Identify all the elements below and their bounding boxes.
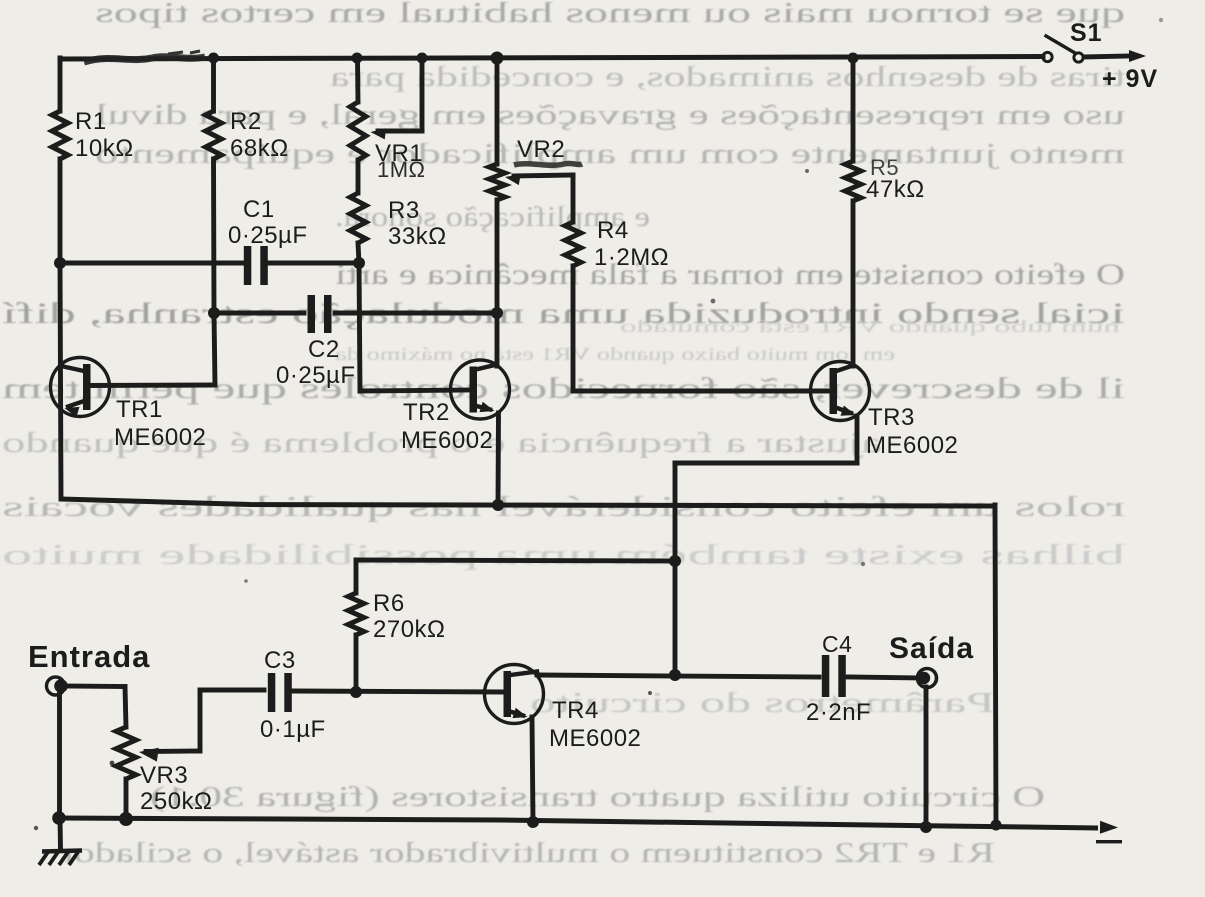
wire right vertical from mid rail (995, 505, 996, 826)
node ground junction (52, 811, 66, 825)
svg-text:ME6002: ME6002 (114, 424, 206, 451)
svg-text:R3: R3 (388, 197, 420, 224)
bottom rail arrow (1100, 821, 1118, 834)
potentiometer VR3 (116, 727, 136, 779)
svg-text:1·2MΩ: 1·2MΩ (594, 244, 669, 271)
wire C1 left (60, 261, 243, 266)
node TR2 collector rail (491, 52, 504, 65)
svg-text:68kΩ: 68kΩ (230, 135, 289, 162)
svg-text:2·2nF: 2·2nF (806, 699, 871, 726)
wire VR1 top lead (355, 58, 360, 102)
svg-text:47kΩ: 47kΩ (866, 176, 925, 203)
wire C4 right to Saida (848, 677, 920, 678)
wire VR2 bottom to TR2 collector (495, 200, 500, 366)
switch S1 (1043, 52, 1052, 61)
svg-text:bilhas existe também uma possi: bilhas existe também uma possibilidade m… (2, 540, 1125, 571)
svg-text:33kΩ: 33kΩ (388, 223, 447, 250)
node R3/C1 junction (353, 257, 365, 269)
svg-text:R1: R1 (75, 108, 107, 135)
wire C2 right (335, 311, 497, 316)
VR2 wiper arrow (505, 174, 521, 185)
wire R5 bottom to TR3 collector (851, 201, 856, 366)
transistor TR4 ME6002 (485, 665, 544, 724)
transistor TR3 ME6002 (811, 362, 870, 421)
wire VR3 bottom lead (124, 779, 129, 819)
node C2 left junction (208, 307, 220, 319)
node TR2 emitter on mid rail (492, 499, 504, 511)
wire top supply rail (60, 57, 1043, 60)
wire TR2 collector from rail (495, 58, 500, 164)
resistor R5 (845, 161, 861, 201)
svg-text:ME6002: ME6002 (549, 725, 641, 752)
terminal Saida (918, 669, 937, 688)
wire VR1-R3 link (356, 160, 361, 193)
wire TR3 base run (573, 389, 833, 394)
svg-text:TR3: TR3 (868, 404, 915, 431)
node R6 top junction (669, 555, 681, 567)
svg-text:270kΩ: 270kΩ (373, 616, 445, 643)
svg-text:0·1µF: 0·1µF (260, 716, 326, 743)
wire TR2 base (360, 390, 472, 391)
capacitor C4 (822, 655, 830, 697)
wire mid emitter rail (61, 499, 995, 506)
smudge correction mark on top rail (84, 57, 205, 62)
svg-text:250kΩ: 250kΩ (140, 788, 212, 815)
node R2 top (208, 53, 219, 64)
wire bottom rail (58, 818, 1098, 828)
capacitor C2 (308, 295, 316, 333)
ground symbol (58, 818, 63, 849)
wire C1 right (269, 261, 358, 266)
wire TR2 emitter (496, 413, 501, 505)
svg-text:0·25µF: 0·25µF (276, 362, 356, 389)
wire down to TR2 base (359, 263, 360, 391)
wire R5 top lead (851, 58, 856, 161)
wire TR4 emitter (532, 717, 533, 822)
wire R3 bottom to C1 node (358, 243, 359, 263)
resistor R3 (350, 193, 366, 243)
svg-text:tiras de desenhos animados, e: tiras de desenhos animados, e concedida … (330, 61, 1125, 93)
node C3/R6/TR4-base junction (350, 686, 362, 698)
wire TR1 base (89, 383, 215, 388)
wire C2 left (214, 311, 304, 316)
svg-text:10kΩ: 10kΩ (75, 135, 134, 162)
node TR4 collector junction (669, 669, 681, 681)
svg-text:R6: R6 (373, 590, 405, 617)
transistor TR2 ME6002 (451, 360, 510, 419)
node VR1 wiper on rail (417, 53, 428, 64)
wire R6 top lead (354, 560, 359, 593)
svg-text:TR2: TR2 (403, 399, 450, 426)
wire R6 bottom lead (354, 635, 359, 692)
svg-text:TR4: TR4 (552, 697, 599, 724)
node VR3 bottom (119, 812, 133, 826)
svg-text:em tom muito baixo quando VR1: em tom muito baixo quando VR1 está no má… (335, 344, 895, 364)
wire R2 top lead (211, 58, 216, 111)
wire S1 to supply arrow (1084, 56, 1128, 57)
wire C3 right to TR4 base (293, 691, 503, 692)
minus sign below arrow (1096, 840, 1122, 843)
node R5 top (848, 53, 859, 64)
wire TR4 collector run (537, 675, 819, 677)
potentiometer VR1 (350, 102, 366, 160)
resistor R1 (52, 111, 68, 159)
dust specks (711, 299, 716, 304)
wire R6 top run (356, 560, 675, 561)
node Saida bottom (920, 821, 932, 833)
wire Entrada to VR3 (61, 684, 125, 689)
svg-text:O circuito utiliza quatro tran: O circuito utiliza quatro transistores (… (150, 781, 1045, 813)
svg-text:R4: R4 (597, 217, 629, 244)
svg-text:num tubo quando VR1 está comut: num tubo quando VR1 está comutado (620, 317, 1120, 336)
svg-text:O efeito consiste em tornar a: O efeito consiste em tornar a fala mecân… (335, 258, 1125, 291)
svg-text:VR2: VR2 (517, 136, 565, 163)
node C2/TR2-collector junction (491, 307, 503, 319)
VR1 wiper arrow (371, 128, 387, 139)
wire R4 bottom (571, 266, 576, 391)
terminal Entrada (47, 677, 65, 695)
svg-text:C4: C4 (822, 631, 852, 657)
transistor TR1 ME6002 (51, 358, 110, 417)
svg-text:S1: S1 (1070, 19, 1103, 47)
node C1-left junction (54, 257, 66, 269)
wire TR1 collector/emitter vertical (60, 263, 61, 499)
wire TR3 emitter step (855, 416, 860, 463)
svg-text:que se tornou mais ou menos ha: que se tornou mais ou menos habitual em … (95, 0, 1125, 29)
wire down to TR1 base corner (214, 313, 215, 385)
capacitor C3 (268, 673, 276, 712)
svg-text:Saída: Saída (889, 632, 974, 665)
svg-text:Entrada: Entrada (28, 639, 150, 674)
svg-text:1MΩ: 1MΩ (377, 157, 426, 182)
wire left vertical (R1 branch) (58, 58, 63, 111)
node TR4 emitter bottom (527, 816, 539, 828)
svg-text:0·25µF: 0·25µF (228, 222, 308, 249)
svg-text:ME6002: ME6002 (401, 427, 493, 454)
svg-text:R2: R2 (230, 108, 262, 135)
VR2 struck-out value (514, 163, 582, 165)
wire Entrada down (57, 694, 62, 818)
VR3 wiper arrow (139, 748, 159, 762)
svg-text:VR3: VR3 (140, 762, 188, 789)
wire VR2 wiper down to R4 (571, 175, 576, 222)
node right corner bottom (991, 820, 1002, 831)
svg-text:ME6002: ME6002 (866, 432, 958, 459)
resistor R6 (348, 593, 364, 635)
node VR1 top (352, 53, 363, 64)
svg-text:C1: C1 (243, 196, 275, 223)
capacitor C1 (244, 246, 252, 285)
resistor R2 (206, 111, 222, 159)
svg-text:R1 e TR2 constituem o multivib: R1 e TR2 constituem o multivibrador astá… (60, 837, 995, 869)
svg-text:il de descrever, são fornecido: il de descrever, são fornecidos controle… (2, 372, 1125, 405)
svg-text:C2: C2 (308, 336, 340, 363)
wire Saida down (924, 687, 929, 827)
svg-text:C3: C3 (264, 647, 296, 674)
resistor R4 (565, 222, 581, 266)
wire R1 bottom to C1 node (58, 159, 63, 263)
svg-text:+ 9V: + 9V (1102, 65, 1158, 93)
wire R2 bottom to C2 node (211, 159, 216, 313)
svg-text:TR1: TR1 (116, 396, 163, 423)
potentiometer VR2 (489, 164, 505, 200)
